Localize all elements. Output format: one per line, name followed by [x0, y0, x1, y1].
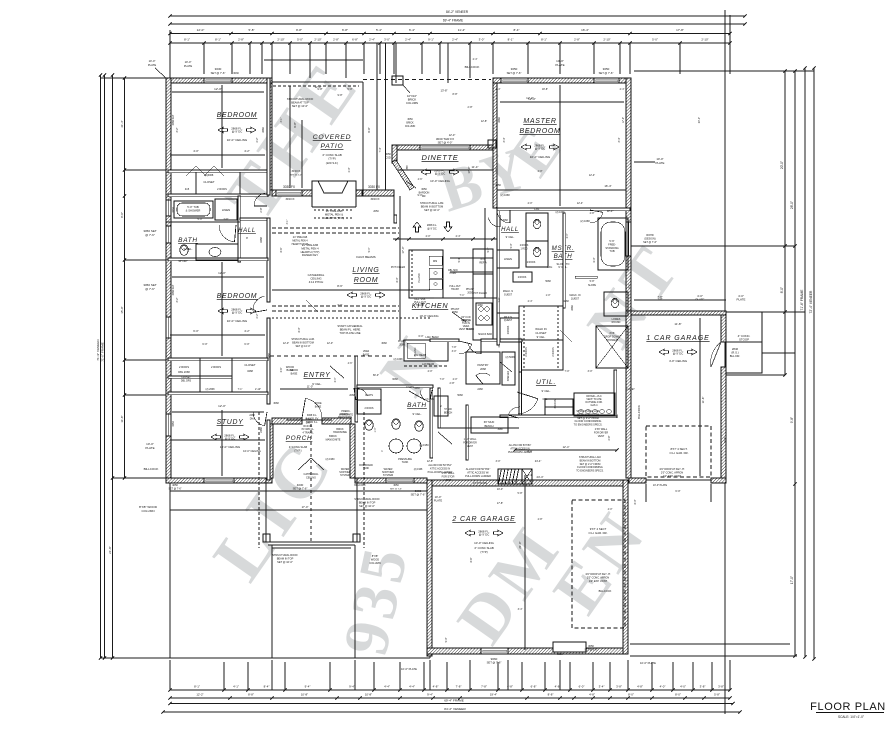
svg-text:(TYP): (TYP)	[480, 550, 487, 554]
spine wall bedrooms right	[267, 78, 270, 195]
svg-text:10'-0" PLATE: 10'-0" PLATE	[640, 661, 656, 665]
front porch steps	[272, 547, 351, 549]
inner dim line study	[172, 411, 264, 413]
svg-text:BEDROOM: BEDROOM	[519, 128, 560, 135]
svg-text:5'-0": 5'-0"	[198, 218, 203, 221]
svg-text:2'-4": 2'-4"	[496, 88, 501, 91]
mstr bath lavs	[526, 213, 548, 241]
svg-text:(2) 1668: (2) 1668	[394, 358, 404, 361]
svg-text:17'-0": 17'-0"	[790, 576, 794, 584]
svg-text:STRUCTURAL LAM.: STRUCTURAL LAM.	[420, 201, 444, 205]
svg-text:2'-8": 2'-8"	[538, 518, 543, 521]
svg-text:3'-8": 3'-8"	[616, 685, 622, 689]
svg-text:11'-4": 11'-4"	[472, 165, 479, 169]
svg-text:10'-0": 10'-0"	[185, 60, 192, 64]
dimension line bottom overall veneer	[163, 711, 740, 713]
svg-text:TO ENGINEERS SPECS.: TO ENGINEERS SPECS.	[576, 470, 604, 473]
window bath1 left lower	[166, 226, 171, 243]
svg-text:17'-0": 17'-0"	[302, 505, 309, 509]
svg-text:(2) 1950: (2) 1950	[419, 444, 429, 447]
svg-text:4'-0": 4'-0"	[538, 170, 543, 173]
svg-text:71'-6" FRAME: 71'-6" FRAME	[800, 289, 804, 311]
svg-text:BILLCOCK: BILLCOCK	[354, 485, 366, 487]
svg-text:PLATE: PLATE	[737, 298, 746, 302]
svg-text:11'-8": 11'-8"	[701, 397, 705, 404]
svg-text:O.H. GAR. DR.: O.H. GAR. DR.	[670, 451, 689, 455]
svg-text:2'-10": 2'-10"	[255, 388, 261, 391]
svg-text:LAV.: LAV.	[534, 207, 540, 211]
svg-text:9' CEL.: 9' CEL.	[312, 382, 322, 386]
svg-text:FREE-: FREE-	[608, 242, 616, 246]
exterior wall left	[166, 78, 171, 483]
svg-text:HANDSOME: HANDSOME	[333, 431, 347, 434]
svg-text:8'-1": 8'-1"	[184, 38, 190, 42]
svg-text:MANSONITE: MANSONITE	[339, 413, 354, 416]
svg-text:5068: 5068	[457, 394, 463, 397]
pantry	[466, 352, 500, 384]
hall fixtures extra	[497, 312, 519, 314]
svg-text:9'-4": 9'-4"	[305, 685, 311, 689]
svg-text:6'-4": 6'-4"	[409, 28, 415, 32]
svg-text:LAM. BEAM: LAM. BEAM	[425, 336, 438, 339]
svg-text:PUMP: PUMP	[450, 273, 457, 275]
svg-text:PLATE: PLATE	[148, 63, 157, 67]
svg-text:5'-8": 5'-8"	[249, 28, 255, 32]
svg-text:3030: 3030	[233, 72, 239, 75]
window study left	[166, 414, 171, 436]
svg-text:MANSONITE: MANSONITE	[326, 438, 341, 441]
svg-text:415: 415	[185, 187, 190, 191]
svg-text:ROUND: ROUND	[612, 321, 621, 324]
svg-text:@ 9' DC: @ 9' DC	[427, 228, 437, 231]
svg-text:(TYP): (TYP)	[328, 157, 335, 161]
svg-text:3030 THR FX: 3030 THR FX	[436, 137, 454, 141]
svg-text:SET @ 7'-6": SET @ 7'-6"	[487, 661, 502, 665]
svg-text:1'-0": 1'-0"	[546, 294, 551, 297]
svg-text:12'-0": 12'-0"	[327, 342, 333, 345]
faux beams dashed	[272, 227, 399, 229]
water heater circles	[389, 439, 403, 453]
svg-text:2 RODS: 2 RODS	[520, 245, 529, 247]
svg-text:3030 FX: 3030 FX	[368, 185, 381, 189]
svg-text:3'-8": 3'-8"	[718, 685, 724, 689]
roof overhang line over patio	[264, 59, 363, 61]
patio interior dimension drops	[289, 86, 291, 188]
svg-text:STUDY: STUDY	[217, 419, 245, 426]
svg-text:BEAM IN BOTTOM: BEAM IN BOTTOM	[421, 204, 443, 208]
more witness ticks top	[169, 30, 171, 78]
svg-text:SET @ 7'-6": SET @ 7'-6"	[211, 71, 226, 75]
svg-text:3'-6": 3'-6"	[280, 367, 283, 372]
entry front wall w door	[272, 418, 302, 424]
dimension line top row segments fine	[170, 42, 730, 44]
door bedroom2	[253, 310, 267, 312]
exterior wall master left	[493, 78, 497, 208]
svg-text:5'-0": 5'-0"	[445, 637, 448, 642]
svg-text:10'-8": 10'-8"	[301, 693, 308, 697]
svg-text:3'-4": 3'-4"	[599, 685, 605, 689]
svg-text:4'-2": 4'-2"	[244, 149, 250, 153]
svg-text:2068: 2068	[480, 367, 486, 371]
garage separation dashed	[630, 375, 632, 478]
covered patio side edge right	[362, 82, 364, 190]
svg-text:SET @ 6'-8": SET @ 6'-8"	[584, 648, 597, 651]
inner dim line master	[500, 101, 624, 103]
living cathedral dash	[272, 317, 430, 319]
svg-text:BATH: BATH	[407, 402, 427, 409]
svg-text:2'-4": 2'-4"	[405, 38, 411, 42]
svg-text:2 RODS: 2 RODS	[179, 365, 189, 369]
svg-text:4050: 4050	[172, 421, 175, 427]
dimension line bottom overall frame	[170, 703, 733, 705]
dimension line bottom row fine	[170, 689, 730, 691]
svg-text:4'-0": 4'-0"	[528, 202, 533, 205]
svg-text:5'-4": 5'-4"	[368, 247, 371, 252]
svg-text:6068: 6068	[392, 378, 398, 381]
svg-text:2'-8": 2'-8"	[333, 38, 339, 42]
svg-text:6'-0": 6'-0"	[419, 335, 424, 338]
svg-text:5'-0": 5'-0"	[510, 243, 513, 248]
linen2	[497, 250, 519, 268]
kitchen up-down arrows	[413, 222, 421, 232]
patio roof dash outline	[268, 85, 359, 87]
util room	[519, 370, 522, 416]
svg-text:SNACK BAR: SNACK BAR	[478, 333, 492, 336]
dimension line top overall veneer	[170, 15, 745, 17]
svg-text:24'-4": 24'-4"	[535, 459, 542, 463]
svg-text:4'-8": 4'-8"	[555, 685, 561, 689]
svg-text:9' CEL.: 9' CEL.	[506, 235, 515, 239]
svg-text:9'-8": 9'-8"	[296, 28, 302, 32]
garage1 side door opening and swing	[711, 342, 721, 367]
inner dim line bedroom2	[172, 276, 264, 278]
svg-text:ROOM: ROOM	[354, 277, 379, 284]
mstr hall walls	[497, 208, 500, 313]
svg-text:BASE: BASE	[363, 353, 370, 356]
exterior wall garage2 bottom	[427, 648, 628, 654]
svg-text:BENCH: BENCH	[462, 319, 471, 322]
wall bedroom1 bottom	[168, 170, 268, 173]
svg-text:8'-1": 8'-1"	[541, 38, 547, 42]
svg-text:2'-8": 2'-8"	[498, 297, 501, 302]
svg-text:POT FILLER: POT FILLER	[391, 266, 405, 269]
svg-text:4'-4": 4'-4"	[409, 685, 415, 689]
svg-text:SET @ 10'-0": SET @ 10'-0"	[295, 345, 310, 348]
svg-text:4'-0" CEILING: 4'-0" CEILING	[669, 359, 688, 363]
svg-text:@ 9' DC: @ 9' DC	[435, 172, 446, 176]
svg-text:5'-8": 5'-8"	[338, 304, 343, 307]
exterior wall dinette left	[392, 145, 397, 163]
kitchen lower cabinet	[404, 340, 448, 361]
open court verticals dinette left	[376, 43, 378, 190]
svg-text:SET @ 10'-0": SET @ 10'-0"	[424, 208, 440, 212]
svg-text:4'-1": 4'-1"	[280, 117, 283, 122]
svg-text:3'-0": 3'-0"	[496, 460, 501, 463]
svg-text:SET @ 7'-6": SET @ 7'-6"	[507, 71, 522, 75]
svg-text:3'-0": 3'-0"	[588, 370, 593, 373]
more witness ticks left wall	[125, 169, 167, 171]
svg-text:BEDROOM: BEDROOM	[217, 112, 258, 119]
left witness ties	[101, 77, 167, 79]
svg-text:8'-8": 8'-8"	[470, 557, 473, 562]
svg-text:12'-8": 12'-8"	[427, 460, 433, 463]
svg-text:12'-8": 12'-8"	[481, 120, 487, 123]
svg-text:SYSTEM: SYSTEM	[383, 474, 393, 477]
dimension line top overall frame	[170, 23, 745, 25]
svg-text:RAISED KEY: RAISED KEY	[302, 253, 318, 257]
svg-text:84'-2" VENEER: 84'-2" VENEER	[444, 707, 466, 711]
witness drops bottom full	[223, 662, 225, 690]
window master top 1	[501, 78, 528, 83]
hearth dashed box	[314, 209, 352, 211]
svg-text:STRUCTURAL ROOF: STRUCTURAL ROOF	[272, 553, 298, 557]
svg-text:SET @ 7'-6": SET @ 7'-6"	[168, 487, 181, 490]
svg-text:SET @ 7'-6": SET @ 7'-6"	[643, 241, 657, 244]
svg-text:11'-8": 11'-8"	[674, 322, 681, 326]
svg-text:7'-1": 7'-1"	[238, 388, 243, 391]
brick column top left	[392, 76, 403, 85]
right witness ties	[634, 70, 814, 72]
svg-text:2'-10": 2'-10"	[701, 38, 708, 42]
bath1 tub	[174, 201, 213, 218]
svg-text:2 CAR GARAGE: 2 CAR GARAGE	[451, 516, 515, 523]
walkway lines	[170, 490, 427, 492]
svg-text:TANK: TANK	[402, 461, 409, 464]
svg-text:SET @ 7'-6": SET @ 7'-6"	[411, 493, 426, 497]
door arcs extra	[499, 215, 501, 227]
svg-text:COATS: COATS	[365, 394, 373, 397]
svg-text:CLAND: CLAND	[466, 328, 474, 331]
svg-text:2 RODS: 2 RODS	[525, 347, 528, 357]
svg-text:3068: 3068	[381, 342, 387, 345]
svg-text:PORCH: PORCH	[286, 435, 313, 442]
svg-text:2030: 2030	[430, 557, 433, 563]
svg-text:PLATE: PLATE	[696, 298, 705, 302]
svg-text:3050: 3050	[588, 644, 594, 648]
svg-text:10'-0" CEILING: 10'-0" CEILING	[419, 314, 438, 318]
court roofline dashed	[363, 79, 491, 81]
bath1 vanity and wc	[180, 245, 188, 256]
svg-text:(2) 1968: (2) 1968	[426, 398, 436, 401]
wall between garages vertical	[626, 311, 631, 478]
svg-text:2'-4": 2'-4"	[369, 38, 375, 42]
svg-text:PULL-DOWN LADDER: PULL-DOWN LADDER	[508, 451, 532, 454]
svg-text:8'-0": 8'-0"	[628, 693, 634, 697]
exterior wall front bath segment	[355, 478, 427, 483]
svg-text:4'-2": 4'-2"	[244, 329, 250, 333]
svg-text:@ 9' DC: @ 9' DC	[535, 147, 546, 151]
svg-text:2'-8": 2'-8"	[238, 38, 244, 42]
exterior wall garage1 bottom segments	[629, 478, 646, 483]
svg-text:METAL PEN 4: METAL PEN 4	[301, 246, 319, 250]
svg-text:12'-0": 12'-0"	[214, 87, 222, 91]
svg-text:2 RODS: 2 RODS	[217, 187, 227, 191]
svg-text:1/2" EXP. JOINT: 1/2" EXP. JOINT	[589, 580, 608, 583]
svg-text:2868: 2868	[571, 305, 574, 311]
svg-text:3050: 3050	[511, 67, 518, 71]
svg-text:12'-4": 12'-4"	[607, 209, 614, 213]
dimension witness drop lines top	[169, 43, 171, 74]
svg-text:2030: 2030	[557, 653, 563, 656]
svg-text:BASE: BASE	[315, 405, 322, 408]
svg-text:3030 FX: 3030 FX	[370, 198, 379, 201]
kitchen right counter	[473, 274, 493, 340]
svg-text:4'-0": 4'-0"	[608, 508, 613, 511]
svg-text:9'-0": 9'-0"	[418, 194, 423, 197]
svg-text:3'-4": 3'-4"	[334, 377, 337, 382]
svg-text:8'-4": 8'-4"	[628, 283, 631, 288]
svg-text:COLUMN: COLUMN	[405, 125, 416, 128]
svg-text:8'-0": 8'-0"	[780, 287, 784, 293]
svg-text:@ 9' DC: @ 9' DC	[232, 130, 243, 134]
watermark diagonal light text	[198, 44, 696, 661]
svg-text:4'-6": 4'-6"	[418, 178, 423, 181]
svg-text:SET @ 10'-0": SET @ 10'-0"	[359, 504, 375, 508]
svg-text:3050 SET: 3050 SET	[172, 114, 175, 125]
svg-text:12'-0": 12'-0"	[315, 85, 322, 89]
dimension line left overall frame	[104, 75, 106, 658]
svg-text:3'-4": 3'-4"	[518, 608, 523, 611]
dinette interior leader	[398, 169, 493, 171]
svg-text:11'-0": 11'-0"	[307, 385, 313, 389]
fridge box	[473, 249, 493, 274]
master closet dims	[519, 339, 563, 341]
svg-text:SET @ 10'-0": SET @ 10'-0"	[277, 560, 293, 564]
svg-text:16'-4": 16'-4"	[604, 184, 611, 188]
dimension line left segments	[124, 78, 126, 478]
svg-text:2080: 2080	[399, 343, 405, 346]
dimension line right overall veneer	[813, 68, 815, 659]
svg-text:8'-8": 8'-8"	[548, 693, 554, 697]
kitchen island vertical	[409, 250, 443, 298]
svg-text:5'-8": 5'-8"	[714, 693, 720, 697]
svg-text:3030 FX: 3030 FX	[285, 198, 294, 201]
svg-text:2 RODS: 2 RODS	[365, 407, 374, 410]
svg-text:2'-8": 2'-8"	[590, 212, 595, 215]
svg-text:17'-8": 17'-8"	[497, 502, 503, 505]
svg-text:BILLCOCK: BILLCOCK	[144, 467, 159, 471]
exterior wall garage1 right	[721, 315, 726, 342]
dimension line bottom row mid	[170, 697, 730, 699]
svg-text:2868: 2868	[498, 117, 501, 123]
svg-text:2'-0": 2'-0"	[348, 167, 351, 172]
svg-text:4'-0": 4'-0"	[426, 235, 431, 238]
svg-text:3'-0": 3'-0"	[384, 38, 390, 42]
svg-text:2'-6": 2'-6"	[224, 218, 229, 221]
svg-text:4:12 PITCH: 4:12 PITCH	[309, 280, 324, 284]
svg-text:MANSONITE: MANSONITE	[338, 416, 353, 419]
dinette-kitchen boundary	[393, 196, 395, 215]
svg-text:PLATE: PLATE	[555, 63, 564, 67]
svg-text:3'-0": 3'-0"	[452, 350, 457, 353]
svg-text:9' CEL.: 9' CEL.	[183, 247, 192, 251]
svg-text:9'-0": 9'-0"	[487, 247, 490, 252]
svg-text:PANTRY: PANTRY	[477, 363, 488, 367]
svg-text:4'-8": 4'-8"	[433, 685, 439, 689]
svg-text:SET @ 7'-6": SET @ 7'-6"	[293, 487, 308, 491]
kitchen island leaders	[404, 365, 448, 367]
porch columns and slab	[263, 534, 270, 542]
svg-text:2'-10": 2'-10"	[314, 38, 321, 42]
svg-text:4'-4": 4'-4"	[384, 685, 390, 689]
svg-text:3050: 3050	[603, 67, 610, 71]
svg-text:4'-0": 4'-0"	[428, 370, 433, 373]
svg-text:16'-4": 16'-4"	[581, 28, 589, 32]
svg-text:STOOP: STOOP	[739, 338, 749, 342]
svg-text:LINEN: LINEN	[504, 257, 512, 261]
svg-text:24'-4": 24'-4"	[536, 475, 543, 479]
svg-text:(2) 1950: (2) 1950	[326, 458, 336, 461]
svg-text:2'-4": 2'-4"	[528, 300, 533, 303]
svg-text:(2) 2668: (2) 2668	[206, 388, 216, 391]
svg-text:REFIA: REFIA	[479, 261, 487, 264]
svg-text:9'-4": 9'-4"	[427, 693, 433, 697]
svg-text:5'-0" TUB: 5'-0" TUB	[187, 205, 199, 209]
svg-text:4'-0": 4'-0"	[660, 685, 666, 689]
svg-text:12'-0": 12'-0"	[283, 342, 289, 345]
svg-text:5'-8": 5'-8"	[590, 280, 595, 283]
svg-text:2050: 2050	[373, 210, 379, 213]
svg-text:10'-0" CEILING: 10'-0" CEILING	[530, 155, 551, 159]
svg-text:BEAM PL. HERE: BEAM PL. HERE	[340, 327, 361, 331]
svg-text:2 RODS: 2 RODS	[518, 277, 527, 279]
svg-text:(TYP.): (TYP.)	[294, 448, 301, 452]
svg-text:3068: 3068	[273, 402, 279, 405]
covered patio top edge	[272, 81, 363, 83]
entry stairs lines	[286, 419, 332, 421]
svg-text:PULL-DOWN LADDER: PULL-DOWN LADDER	[428, 471, 453, 474]
svg-text:17'-8": 17'-8"	[676, 28, 684, 32]
svg-text:3'-4": 3'-4"	[566, 233, 569, 238]
svg-text:4" CONG SLAB: 4" CONG SLAB	[289, 445, 307, 449]
svg-text:8'-0": 8'-0"	[396, 277, 399, 282]
svg-text:5'-0": 5'-0"	[347, 87, 352, 91]
svg-text:41'-4": 41'-4"	[120, 120, 124, 127]
svg-text:TRASH: TRASH	[416, 304, 424, 307]
window 3030 bedroom1 top	[204, 78, 232, 83]
svg-text:PLATE: PLATE	[434, 498, 443, 502]
svg-text:6'-8": 6'-8"	[352, 38, 358, 42]
window bedroom2 left	[166, 317, 171, 338]
svg-text:6'-0": 6'-0"	[202, 342, 207, 346]
svg-text:3050: 3050	[393, 484, 399, 487]
svg-text:3030 FX: 3030 FX	[291, 170, 300, 173]
svg-text:(2) 1668: (2) 1668	[500, 194, 510, 197]
svg-text:& SHOWER: & SHOWER	[186, 208, 201, 212]
svg-text:VENT: VENT	[598, 435, 605, 438]
svg-text:2 RODS: 2 RODS	[211, 365, 221, 369]
svg-text:BEAM IN TOP: BEAM IN TOP	[277, 556, 294, 560]
svg-text:3468: 3468	[268, 353, 271, 359]
svg-text:2 RODS: 2 RODS	[508, 325, 510, 334]
svg-text:LIVING: LIVING	[352, 267, 379, 274]
kitchen range burners	[476, 303, 492, 325]
svg-text:6'-8": 6'-8"	[531, 685, 537, 689]
svg-text:9'-1": 9'-1"	[428, 38, 434, 42]
svg-text:8'-8": 8'-8"	[453, 93, 458, 96]
closet1 dividers	[195, 172, 197, 194]
svg-text:5068: 5068	[545, 280, 551, 283]
exterior wall garage2 top	[427, 480, 628, 486]
svg-text:VENT: VENT	[445, 479, 452, 482]
kitchen dim row	[393, 238, 497, 240]
svg-text:8'-6": 8'-6"	[280, 247, 283, 252]
svg-text:4'-1": 4'-1"	[286, 219, 289, 224]
svg-text:69'-4" FRAME: 69'-4" FRAME	[443, 19, 463, 23]
svg-text:10'-0" CEILING: 10'-0" CEILING	[474, 541, 494, 545]
svg-text:BILLCOCK: BILLCOCK	[599, 589, 612, 593]
svg-text:28'-0": 28'-0"	[790, 201, 794, 209]
